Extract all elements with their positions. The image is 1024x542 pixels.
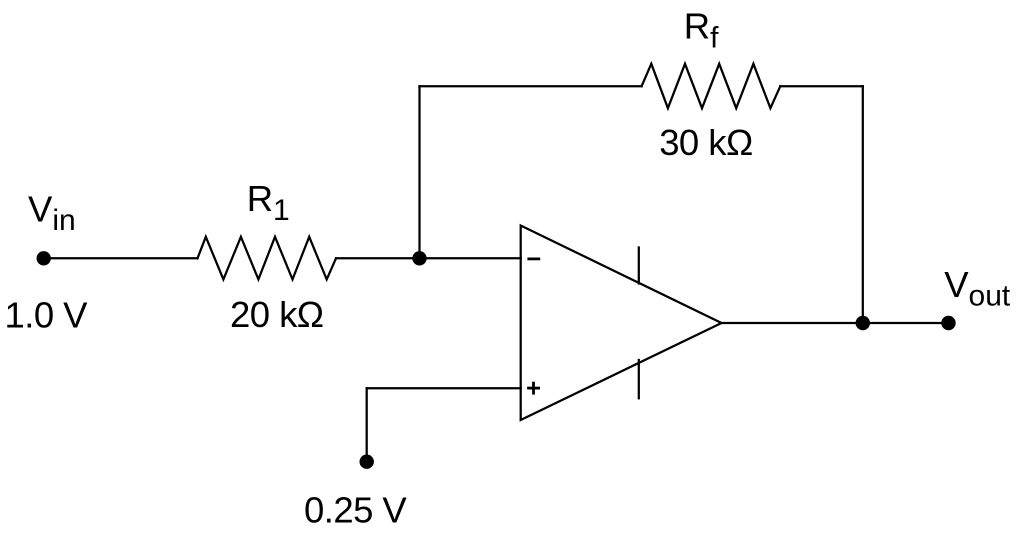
wire: top feedback run to Rf: [420, 85, 642, 87]
svg-text:0.25 V: 0.25 V: [304, 489, 407, 530]
op-amp U1 triangle: [521, 226, 722, 421]
svg-text:30 kΩ: 30 kΩ: [659, 122, 753, 163]
svg-text:1.0 V: 1.0 V: [5, 294, 89, 335]
node: output junction dot: [856, 316, 870, 330]
wire: feedback riser from node A up: [418, 86, 420, 258]
node: Vin terminal dot: [37, 251, 51, 265]
wire: non-inverting input horizontal: [367, 387, 521, 389]
wire: R1 to op-amp inverting input: [336, 257, 521, 259]
node: 0.25 V source terminal dot: [360, 455, 374, 469]
svg-text:Vout: Vout: [944, 264, 1011, 313]
op-amp U1 positive supply pin: [638, 248, 640, 284]
wire: Vin terminal to R1: [44, 257, 198, 259]
svg-text:Vin: Vin: [28, 189, 76, 238]
resistor Rf: [642, 64, 781, 108]
node: Vout terminal dot: [941, 316, 955, 330]
svg-text:R1: R1: [247, 178, 290, 227]
resistor R1: [198, 237, 337, 280]
wire: op-amp output to Vout terminal: [722, 322, 949, 324]
svg-text:Rf: Rf: [684, 6, 719, 55]
op-amp non-inverting input plus sign: [527, 382, 540, 395]
node A: inverting input junction dot: [412, 251, 426, 265]
wire: Rf to right drop: [780, 85, 863, 87]
svg-text:20 kΩ: 20 kΩ: [230, 294, 324, 335]
wire: 0.25 V source riser: [366, 388, 368, 461]
wire: right vertical drop to output node: [862, 86, 864, 323]
op-amp inverting input minus sign: [527, 257, 540, 260]
op-amp U1 negative supply pin: [638, 360, 640, 398]
